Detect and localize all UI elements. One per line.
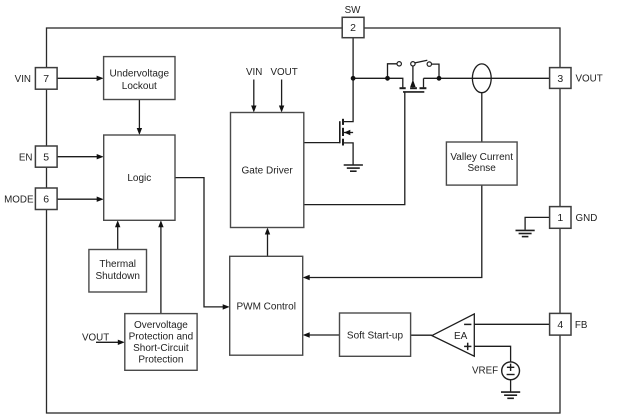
svg-text:5: 5 [43, 151, 49, 163]
svg-text:6: 6 [43, 194, 49, 206]
block Overvoltage Protection and Short-Circuit Protection [125, 314, 197, 371]
node SW junction [351, 76, 356, 81]
svg-text:Valley Current: Valley Current [450, 152, 513, 163]
wire GND pin1 to ground [525, 217, 550, 229]
wire Logic to PWM Control [175, 178, 224, 307]
wire sense element to Valley Current Sense [481, 93, 483, 142]
block Thermal Shutdown [89, 250, 147, 293]
svg-text:EA: EA [454, 331, 468, 342]
wire FB pin4 to EA inverting input [474, 323, 549, 325]
current sense element [472, 64, 491, 93]
wire VOUT into Gate Driver [281, 80, 283, 107]
wire Soft Start-up to PWM Control [309, 334, 340, 336]
wire VIN into Gate Driver [253, 80, 255, 107]
wire Q2 drain up [423, 78, 425, 87]
pin 2 SW [342, 5, 364, 38]
svg-text:VIN: VIN [15, 74, 31, 85]
wire Thermal Shutdown to Logic [117, 227, 119, 250]
svg-text:SW: SW [345, 5, 362, 16]
svg-text:Protection: Protection [138, 354, 183, 365]
svg-text:VREF: VREF [472, 366, 498, 377]
svg-text:VIN: VIN [246, 67, 262, 78]
transistor Q1 low-side NMOS [340, 119, 353, 165]
svg-text:EN: EN [19, 152, 33, 163]
svg-text:3: 3 [557, 73, 563, 85]
pin 3 VOUT [550, 68, 603, 89]
svg-text:2: 2 [350, 22, 356, 34]
pin 1 GND [550, 207, 598, 229]
node PMOS source junction [385, 76, 390, 81]
wire VIN pin7 to Undervoltage Lockout [57, 77, 97, 79]
wire Q2 to VOUT pin3 [424, 77, 550, 79]
switch arm [415, 60, 427, 63]
svg-text:MODE: MODE [4, 195, 34, 206]
pin 4 FB [550, 313, 588, 335]
svg-text:GND: GND [576, 213, 598, 224]
svg-text:Soft Start-up: Soft Start-up [347, 330, 404, 341]
block PWM Control [230, 256, 303, 355]
svg-text:Short-Circuit: Short-Circuit [133, 343, 189, 354]
wire Overvoltage Protection to Logic [160, 227, 162, 314]
block Gate Driver [231, 113, 304, 228]
wire UVLO to Logic [138, 100, 140, 130]
wire EN pin5 to Logic [57, 156, 97, 158]
wire node up to switch contact [388, 64, 397, 79]
svg-text:Logic: Logic [127, 173, 151, 184]
svg-text:1: 1 [557, 212, 563, 224]
svg-text:VOUT: VOUT [271, 67, 298, 78]
svg-text:Thermal: Thermal [99, 259, 136, 270]
wire EA non-inverting input to VREF [474, 346, 510, 362]
wire switch to Q2 drain [432, 64, 439, 78]
switch contact circles [397, 62, 401, 66]
node PMOS drain junction [437, 76, 442, 81]
ground at GND pin [516, 230, 535, 236]
transistor Q2 high-side PMOS with body select switches [400, 66, 427, 92]
svg-text:Shutdown: Shutdown [95, 271, 139, 282]
pin 6 MODE [4, 188, 57, 210]
block Soft Start-up [340, 313, 411, 356]
svg-text:FB: FB [575, 320, 588, 331]
ground below VREF [501, 392, 520, 398]
wire VREF to ground [510, 380, 512, 392]
wire MODE pin6 to Logic [57, 198, 97, 200]
ground below Q1 [344, 165, 363, 171]
svg-text:4: 4 [557, 319, 563, 331]
wire node to node [353, 77, 387, 79]
svg-text:Protection and: Protection and [129, 332, 194, 343]
svg-text:Undervoltage: Undervoltage [110, 69, 170, 80]
svg-text:Sense: Sense [468, 163, 497, 174]
wire Gate Driver to Q1 gate [304, 142, 340, 144]
wire SW pin2 down to node [352, 38, 354, 79]
voltage source VREF [472, 362, 520, 380]
wire PWM Control to Gate Driver [267, 234, 269, 257]
wire Valley Current Sense to PWM Control [309, 185, 482, 277]
svg-text:Overvoltage: Overvoltage [134, 320, 188, 331]
block Valley Current Sense [446, 142, 517, 185]
svg-text:Gate Driver: Gate Driver [242, 165, 294, 176]
wire VOUT to Overvoltage Protection [96, 341, 119, 343]
wire Gate Driver to Q2 gate [304, 92, 405, 205]
svg-text:Lockout: Lockout [122, 81, 157, 92]
pin 5 EN [19, 146, 57, 167]
svg-text:VOUT: VOUT [576, 74, 603, 85]
op-amp EA error amplifier [432, 314, 474, 356]
block Logic [104, 135, 175, 220]
block Undervoltage Lockout [104, 57, 175, 100]
IC boundary [47, 28, 561, 413]
wire EA to Soft Start-up [411, 334, 432, 336]
svg-text:7: 7 [43, 73, 49, 85]
wire node to Q2 source [388, 78, 403, 87]
wire node to Q1 drain [343, 78, 353, 121]
svg-text:PWM Control: PWM Control [236, 301, 295, 312]
pin 7 VIN [15, 68, 57, 90]
